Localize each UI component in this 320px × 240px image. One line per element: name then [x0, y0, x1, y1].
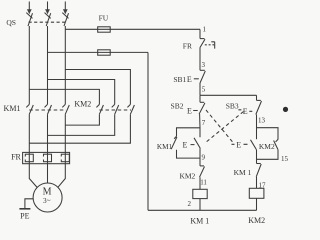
- thermal overload relay FR heaters: [23, 152, 70, 163]
- svg-text:E: E: [187, 75, 192, 84]
- control left rail: [147, 52, 149, 210]
- svg-text:3: 3: [202, 61, 206, 69]
- svg-text:PE: PE: [20, 212, 29, 221]
- svg-text:E: E: [187, 106, 192, 115]
- svg-text:E: E: [183, 141, 188, 150]
- svg-text:7: 7: [202, 119, 206, 127]
- disconnect switch QS pole 2: [45, 13, 51, 26]
- stop button SB1 NC contact: [194, 70, 206, 83]
- wire fuse line 1 from phase3: [65, 28, 200, 30]
- wire 3: [199, 48, 201, 71]
- disconnect switch QS pole 3: [62, 13, 68, 26]
- svg-text:13: 13: [258, 117, 266, 125]
- svg-text:KM2: KM2: [74, 100, 91, 109]
- svg-text:11: 11: [200, 179, 207, 187]
- wire 5: [199, 83, 201, 95]
- wire branch phase1 to KM2 col1: [29, 89, 99, 104]
- contactor KM2 main contact pole 1: [96, 104, 103, 114]
- svg-text:FR: FR: [11, 153, 21, 162]
- svg-text:5: 5: [202, 86, 206, 94]
- KM2 latch contact loop: [257, 128, 279, 160]
- supply line L2 with arrow: [45, 2, 50, 15]
- KM1 NC interlock contact: [256, 164, 261, 177]
- wire 7: [199, 114, 201, 137]
- KM2 NC interlock contact: [200, 166, 205, 177]
- wire fuse line 2 from phase2: [48, 51, 149, 53]
- wire KM2 col2 output to phase2: [48, 114, 115, 135]
- svg-text:KM 1: KM 1: [234, 168, 252, 177]
- KM2 linkage dashed: [99, 109, 131, 111]
- start button SB3 NO contact: [238, 95, 261, 114]
- svg-text:SB2: SB2: [171, 102, 184, 111]
- QS mechanical linkage (dashed): [29, 21, 67, 23]
- svg-text:KM1: KM1: [4, 104, 21, 113]
- wire branch phase2 to KM2 col2: [48, 80, 115, 105]
- wire phase2 QS to KM1: [47, 26, 49, 104]
- wire 13: [256, 115, 258, 140]
- svg-text:15: 15: [281, 155, 289, 163]
- wire branch phase3 to KM2 col3: [65, 70, 130, 105]
- coil KM2: [249, 188, 264, 198]
- control rail corner from fuse1: [199, 29, 201, 38]
- motor M circle: [33, 183, 62, 212]
- contactor KM2 main contact pole 2: [112, 104, 119, 114]
- wire 15: [256, 150, 258, 164]
- svg-text:SB3: SB3: [226, 102, 239, 111]
- disconnect switch QS pole 1: [26, 13, 32, 26]
- wire 11: [199, 177, 201, 189]
- wire to SB2: [199, 95, 201, 102]
- svg-text:KM2: KM2: [259, 142, 275, 151]
- svg-text:E: E: [236, 140, 241, 149]
- svg-text:KM2: KM2: [248, 216, 265, 225]
- contactor KM1 main contact pole 2: [45, 104, 52, 114]
- svg-text:FU: FU: [99, 13, 109, 22]
- svg-text:17: 17: [259, 181, 267, 189]
- interlock dashed SB2 to SB2-NC: [206, 110, 233, 143]
- svg-text:E: E: [243, 107, 248, 116]
- wire phase1 QS to KM1: [28, 26, 30, 104]
- bullet dot: [283, 107, 288, 112]
- KM1 linkage dashed: [29, 109, 66, 111]
- contactor KM1 main contact pole 3: [62, 104, 69, 114]
- node 5 horizontal wire: [200, 94, 257, 96]
- svg-text:KM1: KM1: [157, 143, 173, 151]
- start button SB2 NO contact: [193, 102, 205, 114]
- ground PE: [19, 199, 33, 209]
- svg-text:1: 1: [203, 25, 207, 33]
- contactor KM2 main contact pole 3: [127, 104, 134, 114]
- svg-text:2: 2: [188, 200, 192, 208]
- fuse FU1: [98, 27, 111, 32]
- wire 17: [256, 177, 258, 189]
- svg-text:FR: FR: [183, 42, 192, 51]
- wire coil KM2 to rail: [256, 198, 258, 210]
- SB2 NC contact in KM2 branch: [232, 140, 257, 150]
- svg-text:QS: QS: [6, 18, 16, 27]
- svg-text:KM 1: KM 1: [190, 216, 209, 225]
- wire KM2 col3 output crossover to phase1: [29, 114, 130, 143]
- svg-text:SB1: SB1: [173, 75, 186, 84]
- svg-text:3~: 3~: [43, 196, 51, 205]
- contactor KM1 main contact pole 1: [26, 104, 33, 114]
- wire KM1 outputs down through FR: [28, 114, 30, 164]
- fuse FU2: [98, 50, 111, 55]
- KM1 latch contact loop: [171, 128, 200, 158]
- wire 9: [199, 148, 201, 166]
- FR NC contact (control): [200, 39, 215, 49]
- svg-text:9: 9: [202, 154, 206, 162]
- supply line L3 with arrow: [63, 2, 68, 15]
- coil KM1: [193, 189, 207, 198]
- motor leads: [29, 164, 37, 188]
- bottom rail: [148, 209, 257, 211]
- wire KM2 col1 output crossover to phase3: [65, 114, 99, 125]
- SB3 NC contact in KM1 branch: [191, 138, 201, 149]
- svg-text:KM2: KM2: [179, 171, 195, 180]
- interlock dashed SB3 to SB3-NC: [205, 112, 244, 144]
- wire 2: [199, 199, 201, 211]
- wire phase3 QS to KM1: [64, 26, 66, 104]
- supply line L1 with arrow: [27, 2, 32, 15]
